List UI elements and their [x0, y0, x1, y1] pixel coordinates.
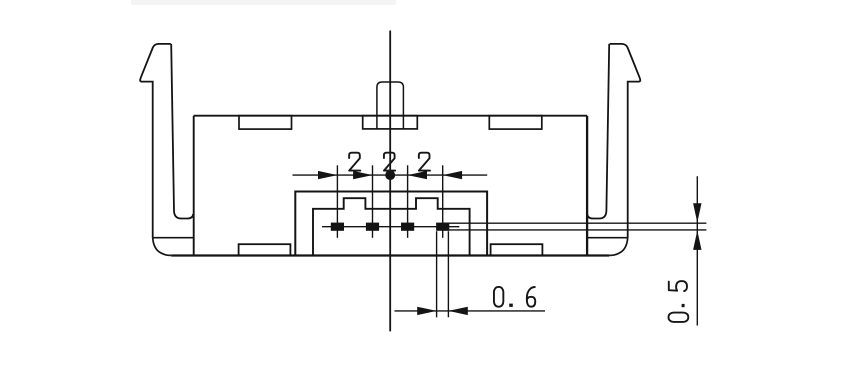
top notch center: [363, 116, 418, 129]
body top edge: [194, 115, 587, 117]
left clip foot chamfer: [153, 238, 172, 256]
digit 5: [669, 281, 687, 291]
period: [682, 304, 685, 307]
0.6 left arrow pointing right: [417, 307, 436, 315]
0.6 right arrow pointing left: [448, 307, 467, 315]
arrow at pin2 pointing right: [353, 171, 372, 179]
dimension extension lines for 0.5 (pin thickness): [443, 222, 706, 224]
dimension text 2 (right): [419, 153, 430, 171]
dimension extension lines for 0.6 (pin width): [436, 231, 438, 317]
top notch right: [489, 116, 542, 129]
pin 3 square: [401, 223, 414, 231]
body bottom edge: [171, 254, 609, 256]
0.5 upper arrow pointing down: [693, 203, 701, 222]
dimension text 2 (left): [349, 153, 360, 171]
dimension text 0.6: digit 6: [527, 287, 535, 307]
pin 4 square: [436, 223, 449, 231]
bottom notch left: [239, 244, 291, 255]
pin 2 extension line: [372, 165, 374, 238]
dimension line 2-2-2: [293, 174, 488, 176]
dimension text 2 (middle): [384, 153, 395, 171]
dimension text 0.6: digit 0: [494, 287, 503, 307]
arrow at pin1 pointing right: [318, 171, 337, 179]
arrow at pin3 pointing left: [408, 171, 427, 179]
body right edge: [586, 116, 588, 256]
center dot on axis: [385, 170, 395, 180]
right clip outer contour: [610, 44, 641, 238]
0.5 dimension vertical line: [696, 176, 698, 325]
slot outer housing: [295, 192, 487, 256]
pin 3 extension line: [407, 165, 409, 238]
centerline axis: [389, 31, 391, 332]
bottom notch right: [491, 244, 543, 255]
top boss: [377, 82, 404, 129]
slot inner profile with keys: [313, 198, 470, 255]
digit 0: [669, 313, 689, 322]
left clip outer contour: [140, 44, 171, 238]
left clip inner arm and U-bottom: [171, 44, 193, 219]
pin 1 extension line: [336, 165, 338, 238]
left clip foot top edge: [153, 237, 194, 239]
top grey remnant bar: [131, 0, 396, 5]
0.6 dimension line: [395, 310, 546, 312]
right clip inner arm and U-bottom: [587, 44, 609, 219]
arrow at pin4 pointing left: [443, 171, 462, 179]
right clip foot chamfer: [609, 238, 628, 256]
pin 4 extension line: [442, 165, 444, 238]
pin 1 square: [331, 223, 344, 231]
dimension text 0.6: period: [509, 304, 513, 307]
0.5 lower arrow pointing up: [693, 231, 701, 250]
right clip foot top edge: [587, 237, 628, 239]
body left edge: [193, 116, 195, 256]
pin 2 square: [366, 223, 379, 231]
top notch left: [239, 116, 292, 129]
pin row centerline: [322, 226, 459, 228]
dimension text 0.5 (rotated 90 CCW): [669, 281, 689, 322]
